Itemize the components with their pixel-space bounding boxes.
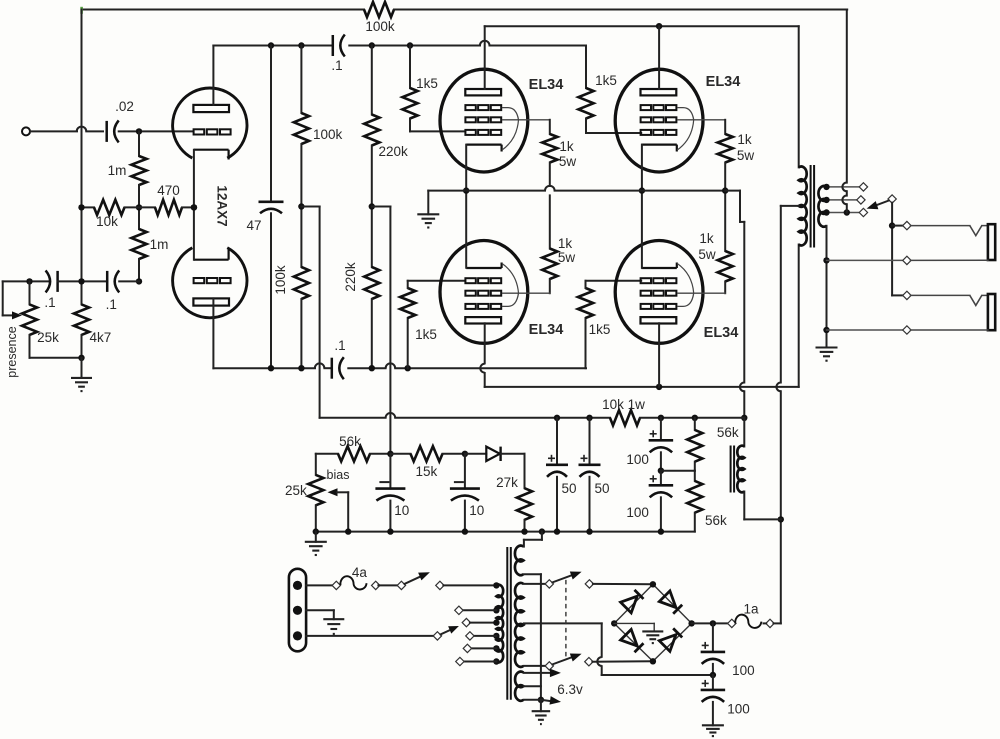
svg-text:EL34: EL34 [529, 322, 564, 338]
svg-text:bias: bias [327, 468, 350, 482]
svg-text:1k5: 1k5 [415, 327, 437, 342]
svg-text:220k: 220k [343, 262, 358, 292]
svg-text:56k: 56k [717, 425, 739, 440]
svg-text:EL34: EL34 [706, 74, 741, 90]
svg-text:56k: 56k [339, 434, 361, 449]
svg-text:10: 10 [469, 503, 484, 518]
svg-text:10k 1w: 10k 1w [602, 397, 645, 412]
svg-text:220k: 220k [379, 144, 409, 159]
svg-text:1a: 1a [743, 602, 759, 617]
svg-text:100k: 100k [365, 19, 395, 34]
svg-text:.1: .1 [106, 297, 117, 312]
svg-text:4a: 4a [352, 565, 368, 580]
svg-text:10: 10 [394, 503, 409, 518]
svg-text:12AX7: 12AX7 [215, 185, 230, 226]
svg-text:1k: 1k [558, 236, 573, 251]
svg-text:50: 50 [594, 481, 609, 496]
svg-text:1k5: 1k5 [416, 76, 438, 91]
svg-text:25k: 25k [285, 483, 307, 498]
svg-text:27k: 27k [496, 475, 518, 490]
svg-text:470: 470 [157, 183, 180, 198]
svg-text:EL34: EL34 [704, 325, 739, 341]
svg-text:.1: .1 [331, 58, 342, 73]
svg-text:10k: 10k [96, 214, 118, 229]
svg-text:56k: 56k [705, 513, 727, 528]
svg-text:100k: 100k [313, 127, 343, 142]
svg-text:15k: 15k [416, 464, 438, 479]
svg-text:100: 100 [626, 452, 649, 467]
svg-text:100: 100 [727, 702, 750, 717]
svg-text:1m: 1m [108, 163, 127, 178]
svg-text:.1: .1 [334, 338, 345, 353]
svg-text:100k: 100k [273, 265, 288, 295]
svg-text:4k7: 4k7 [90, 330, 112, 345]
svg-text:.1: .1 [44, 295, 55, 310]
svg-text:5w: 5w [737, 148, 755, 163]
svg-text:1k: 1k [699, 231, 714, 246]
svg-text:1k5: 1k5 [589, 322, 611, 337]
svg-text:.02: .02 [115, 99, 134, 114]
svg-text:100: 100 [732, 663, 755, 678]
svg-text:1m: 1m [150, 237, 169, 252]
svg-text:25k: 25k [37, 330, 59, 345]
svg-text:6.3v: 6.3v [557, 682, 583, 697]
svg-text:5w: 5w [558, 250, 576, 265]
svg-text:50: 50 [561, 481, 576, 496]
svg-text:presence: presence [5, 326, 19, 377]
svg-text:1k: 1k [559, 139, 574, 154]
svg-text:EL34: EL34 [529, 77, 564, 93]
svg-text:47: 47 [246, 218, 261, 233]
svg-text:1k5: 1k5 [595, 73, 617, 88]
svg-text:100: 100 [626, 505, 649, 520]
svg-text:5w: 5w [698, 247, 716, 262]
svg-text:1k: 1k [737, 132, 752, 147]
svg-text:5w: 5w [559, 154, 577, 169]
